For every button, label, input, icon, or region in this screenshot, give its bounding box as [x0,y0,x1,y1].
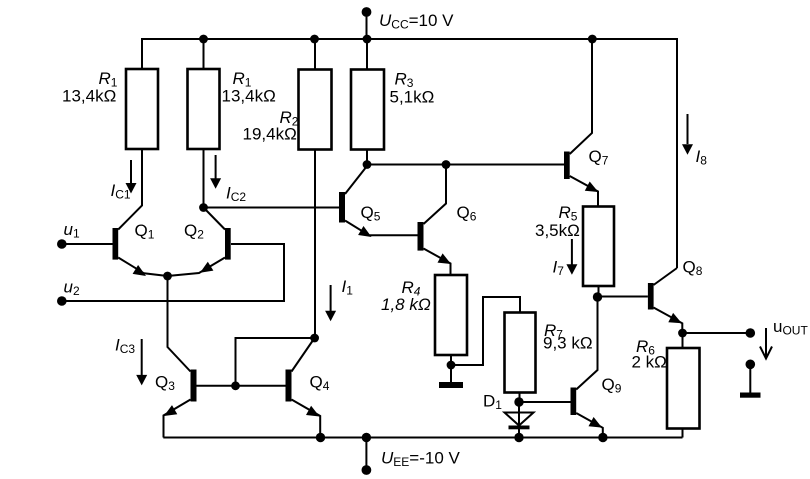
wire R7 bottom to D1 node [519,393,521,403]
svg-text:UCC=10 V: UCC=10 V [379,11,454,32]
node D1-R7-Q9 junction [514,397,523,406]
resistor R3 [351,70,384,150]
wire R5 node to Q8 base [598,296,648,298]
node R5 bottom junction [593,292,602,301]
terminal uOUT [746,328,756,338]
transistor Q5 [339,166,418,237]
wire R4 bottom [450,355,452,365]
resistor R2 [299,70,332,150]
wire top supply rail [142,39,677,268]
wire bottom supply rail [163,437,682,439]
node Q4 collector junction [310,334,319,343]
svg-text:2 kΩ: 2 kΩ [632,353,667,372]
wire R1-second to Q2 collector node [203,39,205,208]
resistor R7 [505,313,536,393]
node output junction [678,329,687,338]
terminal ground (output) [746,360,756,370]
svg-text:13,4kΩ: 13,4kΩ [222,87,276,106]
resistor R4 [435,275,467,355]
node Q9 emitter rail junction [598,433,607,442]
transistor Q6 [418,165,452,276]
node rail-R2 junction [310,35,319,44]
terminal u2 [57,296,67,306]
diode D1 [505,402,534,438]
current arrow I1 [325,285,336,321]
node D1 rail junction [514,433,523,442]
transistor Q1 [113,228,168,276]
wire R6 bottom to rail [682,429,684,438]
transistor Q4 [286,339,321,438]
node rail-Q7 junction [588,35,597,44]
wire R1-left to Q1 collector [118,149,142,230]
transistor Q2 [168,208,231,277]
wire R6 top [682,333,684,348]
svg-text:3,5kΩ: 3,5kΩ [535,221,580,240]
transistor Q8 [648,268,682,333]
resistor R6 [667,348,700,429]
ground at output [740,364,761,397]
resistor R1 (second) [188,69,220,149]
svg-text:5,1kΩ: 5,1kΩ [390,88,435,107]
svg-text:19,4kΩ: 19,4kΩ [243,125,297,144]
current arrow IC3 [136,339,147,385]
power UEE terminal [362,438,372,475]
wire R4 to R7 link [451,297,520,365]
wire output node to terminal [683,332,751,334]
power UCC terminal [362,7,372,39]
wire R3 to rail [366,39,368,70]
resistor R1 (left) [126,69,158,149]
node rail-R1b junction [199,35,208,44]
wire R2 down to Q4 collector node [314,150,316,339]
wire R2 to rail [314,39,316,70]
wire u1 to Q1 base [62,243,113,245]
wire R5 bottom [598,286,600,297]
ground at R4 [439,365,463,388]
arrow uOUT [760,328,772,359]
node rail-UCC-R3 junction [363,35,372,44]
terminal u1 [57,239,67,249]
svg-text:13,4kΩ: 13,4kΩ [62,87,116,106]
resistor R5 [583,207,614,287]
node rail-UEE junction [362,433,371,442]
wire Q2 base line from collector node [204,207,340,209]
node R3 bottom junction [363,160,372,169]
wire common emitters to Q3 collector [168,276,191,372]
transistor Q7 [564,39,598,207]
current arrow I8 [682,114,693,155]
current arrow IC1 [126,160,137,194]
transistor Q3 [164,370,286,438]
svg-text:9,3 kΩ: 9,3 kΩ [543,334,593,353]
wire R3 to Q5/Q7 base line [367,150,564,165]
wire base tie to Q4 collector node [236,338,315,386]
node Q6 collector junction [442,160,451,169]
node Q2 collector junction [199,203,208,212]
current arrow I7 [566,239,577,275]
node Q4 emitter rail junction [316,433,325,442]
node common emitter junction [163,272,172,281]
svg-text:1,8 kΩ: 1,8 kΩ [381,295,431,314]
current arrow IC2 [210,155,221,189]
node Q3-Q4 base junction [231,381,240,390]
wire u2 to Q2 base loop [62,244,284,301]
svg-text:UEE=-10 V: UEE=-10 V [381,449,461,470]
transistor Q9 [519,297,603,438]
node R4 bottom junction [447,361,456,370]
